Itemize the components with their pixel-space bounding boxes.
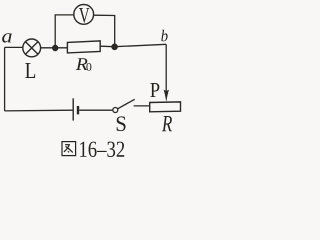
slider arrow P bbox=[150, 83, 169, 102]
wire battery to switch bbox=[79, 109, 113, 111]
wire R0 to b corner bbox=[100, 44, 166, 46]
lamp L bbox=[23, 39, 41, 78]
rheostat R bbox=[150, 102, 181, 131]
wire left vertical bbox=[4, 47, 6, 111]
wire voltmeter left branch bbox=[55, 15, 74, 48]
caption 16-32 bbox=[80, 142, 124, 157]
wire right vertical to slider bbox=[165, 44, 167, 90]
junction node 2 bbox=[111, 44, 118, 51]
voltmeter U1 bbox=[74, 5, 94, 25]
wire voltmeter right branch bbox=[94, 15, 115, 47]
node a bbox=[2, 33, 12, 42]
battery B1 bbox=[73, 98, 78, 120]
wire bottom left to battery bbox=[5, 109, 73, 112]
wire switch to rheostat bbox=[134, 105, 150, 107]
wire a to lamp bbox=[5, 46, 23, 48]
wire lamp to R0 bbox=[41, 47, 68, 49]
node b bbox=[161, 30, 167, 42]
junction node 1 bbox=[52, 45, 58, 51]
resistor R0 bbox=[67, 41, 100, 71]
switch S bbox=[113, 99, 135, 131]
caption glyph tu (figure) bbox=[62, 142, 76, 156]
